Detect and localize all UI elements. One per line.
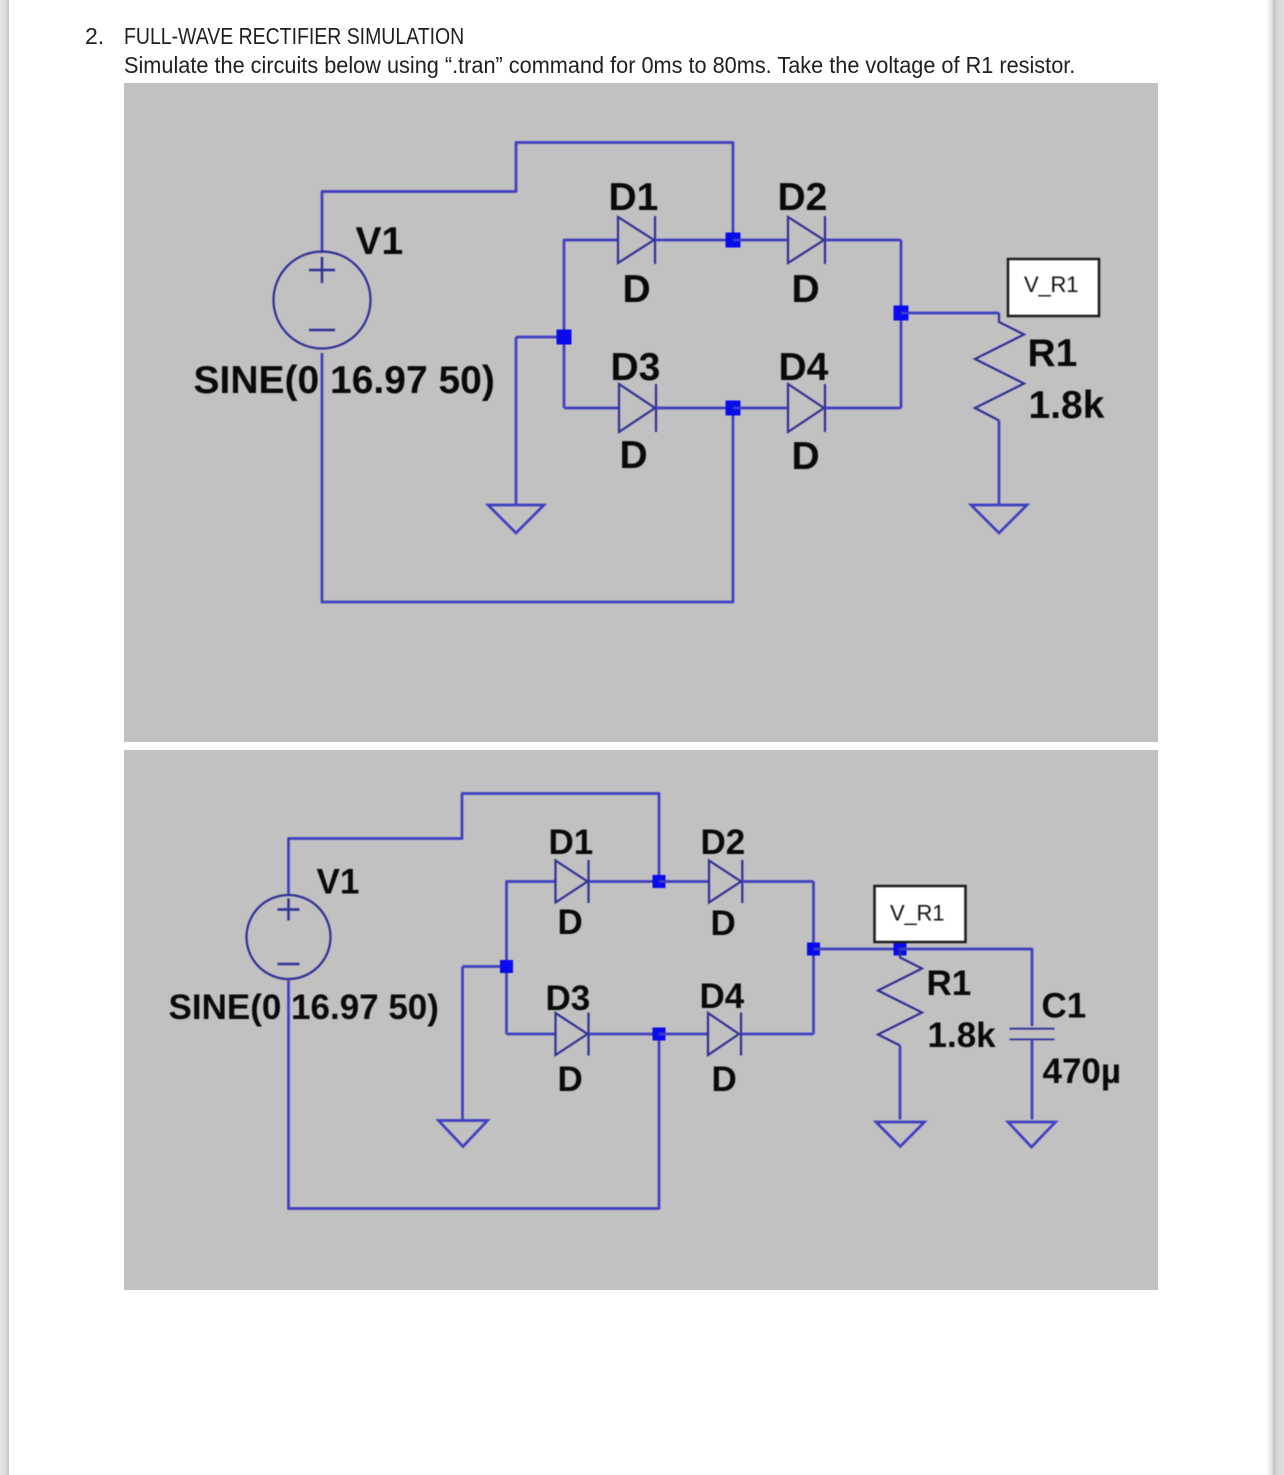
panel 1 : LTspice screenshot full-wave rectifier — [124, 83, 1158, 742]
wire V1 plus lead up (circuit 2) — [287, 839, 290, 896]
node junction left rail (circuit 2) — [500, 960, 513, 973]
svg-text:D: D — [620, 434, 648, 477]
wire top horizontal to bridge (circuit 2) — [461, 792, 659, 795]
svg-text:D4: D4 — [779, 346, 829, 389]
wire ground drop vertical — [515, 337, 518, 504]
ground symbol under R1 (circuit 2) — [876, 1122, 925, 1147]
V1 minus sign — [309, 329, 335, 332]
svg-text:V1: V1 — [356, 220, 404, 263]
wire D3 anode — [564, 407, 619, 410]
V1 plus sign (circuit 2) — [278, 899, 300, 921]
wire down to node between D1 D2 — [732, 142, 735, 241]
svg-text:D3: D3 — [611, 346, 661, 389]
wire V1 minus lead down (circuit 2) — [287, 979, 290, 1210]
svg-text:1.8k: 1.8k — [928, 1016, 997, 1055]
ground symbol under C1 (circuit 2) — [1008, 1122, 1056, 1147]
net label box V_R1 — [1008, 259, 1099, 316]
svg-text:470µ: 470µ — [1043, 1052, 1122, 1091]
svg-text:V1: V1 — [317, 863, 360, 902]
svg-text:D2: D2 — [778, 176, 828, 219]
V1 minus sign (circuit 2) — [278, 963, 300, 966]
svg-text:R1: R1 — [927, 964, 972, 1003]
left scrollbar strip — [0, 0, 9, 1475]
svg-text:C1: C1 — [1042, 987, 1087, 1026]
wire jog up (circuit 2) — [461, 794, 464, 840]
svg-text:SINE(0 16.97 50): SINE(0 16.97 50) — [169, 988, 439, 1027]
resistor R1 (circuit 2) — [878, 949, 922, 1046]
wire D4 anode (circuit 2) — [659, 1033, 708, 1036]
wire up to node between D3 D4 — [732, 408, 735, 603]
wire top horizontal from V1 (circuit 2) — [288, 837, 463, 840]
wire D4 anode — [733, 407, 788, 410]
wire right rail vertical — [900, 240, 903, 408]
wire up to node between D3 D4 (circuit 2) — [658, 1034, 661, 1210]
heading title — [124, 23, 526, 50]
diode D1 — [618, 216, 655, 264]
svg-text:1.8k: 1.8k — [1029, 384, 1105, 427]
wire bottom horizontal — [321, 601, 733, 604]
ground symbol left — [488, 505, 544, 533]
svg-text:D: D — [558, 1060, 583, 1099]
node junction R1 top (circuit 2) — [894, 943, 907, 956]
net label box V_R1 (circuit 2) — [875, 886, 966, 942]
node junction D3-D4 — [726, 401, 741, 416]
wire D4 cathode — [825, 407, 901, 410]
node junction right rail output — [894, 306, 909, 321]
svg-text:V_R1: V_R1 — [1024, 272, 1078, 297]
wire V1 minus lead down — [321, 353, 324, 603]
wire D2 anode — [733, 239, 788, 242]
wire D1 cathode to node — [655, 239, 733, 242]
wire left rail vertical (circuit 2) — [505, 882, 508, 1035]
wire ground tie horizontal (circuit 2) — [463, 965, 507, 968]
diode D2 — [788, 216, 825, 264]
ground symbol right — [971, 505, 1027, 533]
wire D3 cathode to node — [656, 407, 733, 410]
ground symbol left (circuit 2) — [439, 1121, 488, 1147]
wire jog up — [515, 143, 518, 193]
wire top horizontal to bridge — [515, 141, 733, 144]
svg-text:R1: R1 — [1028, 332, 1078, 375]
node junction D3-D4 (circuit 2) — [653, 1028, 666, 1041]
svg-text:D1: D1 — [609, 176, 659, 219]
svg-text:D3: D3 — [546, 979, 591, 1018]
svg-text:D2: D2 — [701, 823, 746, 862]
svg-text:D: D — [792, 435, 820, 478]
heading number — [85, 23, 104, 50]
wire R1 top to C1 (circuit 2) — [899, 948, 1033, 951]
capacitor C1 (circuit 2) — [1010, 1029, 1055, 1040]
wire output to R1 (circuit 2) — [814, 948, 899, 951]
wire D1 cathode to node (circuit 2) — [589, 880, 660, 883]
wire down to node between D1 D2 (circuit 2) — [658, 793, 661, 882]
wire C1 top lead (circuit 2) — [1031, 948, 1034, 1026]
wire ground tie horizontal — [516, 336, 564, 339]
wire top horizontal from V1 — [321, 190, 516, 193]
wire D3 cathode to node (circuit 2) — [589, 1033, 660, 1036]
node junction D1-D2 — [726, 233, 741, 248]
wire D2 anode (circuit 2) — [659, 880, 709, 883]
wire left rail vertical — [563, 240, 566, 408]
node junction D1-D2 (circuit 2) — [653, 875, 666, 888]
heading line 2 — [124, 52, 1132, 79]
wire ground drop vertical (circuit 2) — [461, 967, 464, 1120]
diode D4 — [788, 384, 825, 432]
svg-text:D4: D4 — [700, 977, 745, 1016]
wire output to R1 — [901, 312, 999, 315]
svg-text:D: D — [712, 1060, 737, 1099]
svg-text:SINE(0 16.97 50): SINE(0 16.97 50) — [194, 359, 495, 402]
voltage source V1 circle (circuit 2) — [247, 895, 331, 979]
wire D3 anode (circuit 2) — [507, 1033, 556, 1036]
diode D3 (circuit 2) — [556, 1013, 589, 1056]
diode D3 — [619, 384, 656, 432]
wire R1 bottom lead — [998, 421, 1001, 505]
wire bottom horizontal (circuit 2) — [288, 1207, 660, 1210]
diode D4 (circuit 2) — [708, 1013, 741, 1056]
diode D2 (circuit 2) — [709, 860, 742, 903]
wire right rail vertical (circuit 2) — [812, 882, 815, 1035]
svg-text:D: D — [792, 268, 820, 311]
V1 plus sign — [309, 257, 335, 283]
wire C1 bottom lead (circuit 2) — [1031, 1039, 1034, 1119]
right scrollbar strip — [1273, 0, 1284, 1475]
resistor R1 — [975, 313, 1024, 421]
svg-text:V_R1: V_R1 — [890, 901, 944, 926]
node junction right rail output (circuit 2) — [807, 943, 820, 956]
panel 2 : LTspice screenshot full-wave rectifier with capacitor — [124, 750, 1158, 1290]
svg-text:D: D — [711, 904, 736, 943]
wire D4 cathode (circuit 2) — [741, 1033, 814, 1036]
node junction left rail — [557, 330, 572, 345]
wire V1 plus lead up — [321, 192, 324, 254]
wire R1 bottom lead (circuit 2) — [899, 1046, 902, 1120]
wire D2 cathode — [825, 239, 901, 242]
wire D1 anode (circuit 2) — [506, 880, 556, 883]
voltage source V1 circle — [274, 252, 371, 349]
diode D1 (circuit 2) — [556, 860, 589, 903]
wire D1 anode — [563, 239, 618, 242]
svg-text:D1: D1 — [549, 823, 594, 862]
wire D2 cathode (circuit 2) — [742, 880, 814, 883]
svg-text:D: D — [558, 903, 583, 942]
right shadow — [1266, 0, 1273, 1475]
svg-text:D: D — [623, 268, 651, 311]
